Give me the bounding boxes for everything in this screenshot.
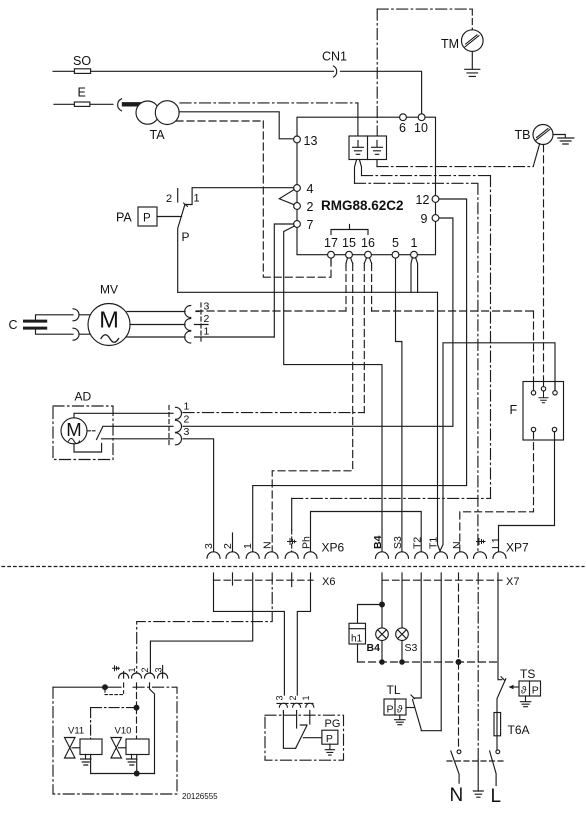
connector PG arcs [279,703,287,707]
svg-text:P: P [326,733,333,745]
wire TA secondary to pin 13 [179,112,294,139]
wire PE dash-dot down [477,573,479,760]
svg-text:B4: B4 [367,642,381,654]
pin 1 [411,251,418,258]
wire F right pin to T1 line [440,343,555,551]
wire S3 line [401,573,403,628]
wire h1 to rail [357,644,359,662]
ground V10 [127,755,138,766]
svg-text:2: 2 [288,695,298,700]
pin 9 [432,215,439,222]
thermostat TB [533,125,553,145]
svg-text:PA: PA [116,211,132,225]
wire contact 1 to pin 4 [184,188,294,207]
svg-text:MV: MV [100,283,118,297]
wire junction to V10 [136,708,138,739]
wire AD3 to XP6-3 [183,439,214,552]
svg-text:TS: TS [520,667,535,681]
svg-text:P: P [143,213,151,225]
bracket over pins 17 15 16 [331,225,368,235]
arrow TS link [513,686,519,688]
ground symbol in F [539,391,548,403]
damper AD box dash-dot [53,406,113,460]
svg-text:1: 1 [242,543,254,549]
svg-text:2: 2 [184,414,190,426]
pressure switch PA box [138,207,157,226]
wire F to XP7 N dashed [460,432,534,552]
ground V11 [81,755,92,766]
svg-text:1: 1 [301,695,311,700]
wire line3 dash-dot to XP7 ground [355,183,478,551]
pin 5 [392,251,399,258]
svg-text:1: 1 [204,326,210,338]
svg-text:N: N [262,541,274,549]
svg-text:3: 3 [153,667,163,672]
svg-text:N: N [451,541,463,549]
svg-text:9: 9 [421,212,428,226]
svg-text:13: 13 [304,134,318,148]
connector MV arcs [185,306,191,344]
svg-text:E: E [78,86,86,100]
enclosure valves dash-dot box [53,687,177,794]
wire AD1 dash-dot to pin16 [183,412,364,414]
svg-text:L1: L1 [490,537,502,549]
wire PG3 to lever [283,711,295,749]
wire valve1 feed to junction [136,683,138,708]
contact 2 tick [177,189,179,203]
ground label valve conn [113,666,120,671]
ground PG [325,744,334,755]
ground TM [465,51,480,76]
wire B4 lamp to rail [381,641,383,663]
ground label XP7 [477,539,486,545]
connector E break arc [118,99,122,111]
F top pins [534,382,556,391]
dashed detour under ground terminal [105,690,124,695]
wire shield to ground terminal [53,683,124,687]
wire X6-N dash-dot to valve conn 1 [137,573,273,673]
wire AD2 to pin9 [183,425,453,427]
svg-text:L: L [491,786,502,807]
enclosure PG dash-dot box [265,715,344,760]
wire Ph to T2 [311,512,422,552]
svg-text:2: 2 [222,543,234,549]
switch TL lever [413,700,442,731]
svg-text:XP7: XP7 [506,541,529,555]
wire valve2 feed jog [150,683,155,774]
wire junction to V11 dash-dot [91,708,137,739]
svg-text:16: 16 [361,236,375,250]
wire MV 1 [127,336,274,338]
wire TA dashed to pin 17 [176,121,331,277]
svg-text:XP6: XP6 [322,541,345,555]
junction N rail [456,660,461,665]
svg-text:SO: SO [73,54,91,68]
svg-text:F: F [510,403,518,417]
svg-text:P: P [182,230,190,244]
pin 10 [418,114,425,121]
svg-text:1: 1 [184,401,190,413]
wire pin9 to AD2 [439,218,453,426]
pin 7 [294,221,301,228]
pin 6 [400,114,407,121]
wire lambda legs from left cell [355,160,362,184]
svg-text:ϑ: ϑ [397,705,403,716]
svg-text:2: 2 [204,313,210,325]
wire pin15 loop [346,258,353,264]
svg-text:P: P [387,704,394,716]
tie bar dashed N-L [447,760,504,762]
disconnect N [457,750,461,754]
svg-text:1: 1 [127,667,137,672]
wire rail P common to pin1 [178,291,438,293]
wire PG link [303,737,322,739]
motor AD [61,418,87,444]
connector CN1 break [334,66,337,77]
cable marker PG [277,702,313,704]
pin 4 [294,185,301,192]
pin 2 [294,203,301,210]
svg-text:2: 2 [140,667,150,672]
svg-text:15: 15 [342,236,356,250]
svg-text:M: M [66,419,81,440]
svg-text:1: 1 [194,193,200,205]
wire PA link to lever [157,216,182,218]
svg-text:1: 1 [411,236,418,250]
wire MV 2 stub [130,324,208,326]
wire pin16 loop [364,258,371,264]
pin 15 [346,251,353,258]
wire pin12 to XP6-1 [253,199,467,552]
stub valve conn 3 [162,666,164,679]
switch PG lever [296,726,307,749]
switch AD internal [88,430,95,432]
svg-text:C: C [9,318,18,332]
connector X6 row [214,579,314,581]
svg-text:T2: T2 [411,537,423,549]
fuse T6A [496,713,498,750]
thick bar into TA [124,102,139,106]
wire pin7 to MV1 [274,224,293,337]
separator dotted line [2,566,584,568]
wire XP7-N dashed down [458,573,460,750]
ground label XP6 [288,539,297,545]
svg-text:V11: V11 [68,726,84,737]
wire pin1 right leg down to T1 [438,292,441,551]
wire T1 down [440,573,442,731]
wire X6-1 to valve conn 2 [150,573,252,673]
wire TB diagonal to line1 [533,144,540,167]
wire TM dashed drop [471,9,473,30]
cable marker AD [168,406,170,447]
connector C arcs [73,309,79,340]
svg-text:10: 10 [414,121,428,135]
stub PG1 contact [300,711,310,726]
terminal strip XP7 arcs [376,552,389,558]
switch P lever [178,205,185,293]
fuse SO [74,69,90,74]
svg-text:AD: AD [75,390,92,404]
rail dashed lamps to N [358,661,498,663]
svg-text:3: 3 [275,695,285,700]
cable marker MV [200,303,202,341]
wire L1 to TS [498,573,505,680]
svg-text:2: 2 [307,200,314,214]
labels PG rotated [275,695,311,700]
wire line1 right cell to TB [376,160,378,167]
wire line2 dash-dot to XP6 ground [362,176,491,499]
disconnect L [496,750,500,754]
svg-text:Ph: Ph [301,536,313,549]
wire TA dash-dot to ground box [180,102,358,104]
wire dashed MV3 to pin15 [196,310,346,312]
svg-text:RMG88.62C2: RMG88.62C2 [321,198,404,213]
wire TB dashed to F [543,145,545,387]
svg-text:h1: h1 [351,634,363,645]
svg-text:TL: TL [387,683,401,697]
wire SO line [53,71,422,113]
wire ground bus XP6 [292,497,491,499]
svg-text:X6: X6 [322,576,335,588]
svg-text:6: 6 [399,121,406,135]
svg-text:V10: V10 [115,726,132,737]
svg-text:3: 3 [184,426,190,438]
wire TL link [406,707,415,709]
terminal strip XP6 arcs [207,552,220,558]
wire X6-3 to PG3 [214,573,285,695]
wire AD motor top to 1 [74,413,173,418]
wire E line [54,103,113,105]
transformer TA [136,101,159,124]
svg-text:5: 5 [392,236,399,250]
wire T2 to TL switch [411,573,421,699]
svg-text:4: 4 [307,182,314,196]
svg-text:T6A: T6A [508,723,530,737]
wire B4 line with junction [381,573,383,628]
labels valve conn rotated [127,667,163,672]
wire link pins 4-2 [279,190,294,205]
fuse E [74,102,89,106]
svg-text:TB: TB [515,128,531,142]
labels XP7 rotated [372,535,502,549]
pin 12 [432,196,439,203]
thermometer TM [462,30,484,52]
terminal XP6-2 stub [232,533,234,552]
svg-text:S3: S3 [392,536,404,549]
pin 17 [328,251,335,258]
svg-text:P: P [532,685,539,697]
pin 13 [294,136,301,143]
wire V11 coil to rail [90,755,92,774]
ground TB [553,135,574,145]
svg-text:PG: PG [325,718,341,730]
relay F box [523,382,564,441]
wire MV 3 [127,311,185,313]
svg-text:ϑ: ϑ [521,686,527,697]
lamp S3 [396,628,409,641]
pin 16 [365,251,372,258]
wire dashed pin16 to F [372,311,534,391]
wire pin5 to S3 [396,258,402,551]
labels XP6 rotated [203,536,313,549]
wire S3 lamp to rail [401,641,403,663]
wire pin7 to B4 [284,226,382,551]
svg-text:T1: T1 [428,537,440,549]
svg-text:20126555: 20126555 [182,792,218,801]
connector X7 row [382,579,502,581]
svg-text:TM: TM [441,37,459,51]
hour counter h1 [349,623,366,644]
svg-text:17: 17 [324,236,338,250]
wire X6-Ph to PG2 [297,573,310,695]
ground symbol left cell [353,141,364,155]
controller U1 RMG88.62C2 box [297,117,436,255]
switch TS lever [497,679,506,713]
stub PG2 [296,711,298,729]
rail valves bottom [91,773,155,775]
svg-text:12: 12 [416,193,430,207]
svg-text:S3: S3 [405,642,418,654]
ground symbol right cell [372,141,383,155]
enclosure TM dash-dot [377,8,472,10]
ground box dual cell [349,136,387,160]
wire pin1 legs [411,257,418,292]
ground TL [395,715,405,725]
svg-text:M: M [99,307,119,333]
svg-text:X7: X7 [506,576,519,588]
svg-text:CN1: CN1 [322,50,347,64]
svg-text:7: 7 [307,218,314,232]
ground PE mains [473,791,483,797]
wire F to XP7 L1 [499,432,555,552]
svg-text:TA: TA [150,128,166,142]
ground TS [520,696,530,707]
svg-text:3: 3 [203,543,215,549]
svg-text:N: N [450,785,464,806]
svg-text:3: 3 [204,301,210,313]
connector AD arcs [176,407,182,445]
lamp B4 [376,628,389,641]
valve connector arcs [119,673,129,678]
wire pin17 tick [330,258,332,264]
wire V10 coil to rail [136,755,138,774]
svg-text:B4: B4 [372,535,384,549]
svg-text:2: 2 [166,193,172,205]
F bottom pins [531,427,535,431]
wire junction to h1 [358,605,383,624]
